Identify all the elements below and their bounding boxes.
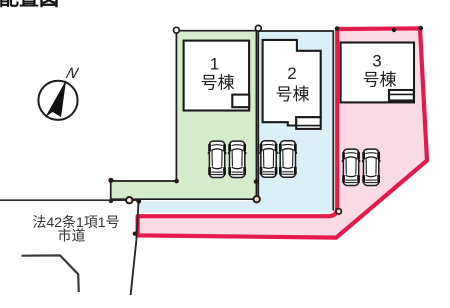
open circle marker (129.3,200.2) xyxy=(126,197,132,203)
compass circle xyxy=(38,81,77,120)
car 2 (plot 1) xyxy=(228,141,247,177)
vertex dot (110.9,200.9) xyxy=(109,199,114,204)
svg-text:号棟: 号棟 xyxy=(276,85,310,104)
building 2 xyxy=(263,40,321,126)
building 2 porch box xyxy=(296,117,321,129)
svg-text:市道: 市道 xyxy=(58,227,86,243)
building 3 porch box xyxy=(389,90,414,101)
compass needle xyxy=(45,80,66,117)
car 3 (plot 2) xyxy=(259,141,278,177)
svg-text:号棟: 号棟 xyxy=(363,71,397,90)
building 3 porch divider xyxy=(389,93,414,95)
svg-text:3: 3 xyxy=(372,52,381,71)
wire plot2 right edge xyxy=(332,30,334,210)
building 1 xyxy=(184,41,250,111)
open circle marker (176.4,30.2) xyxy=(174,27,180,33)
open circle marker (258.3,28.3) xyxy=(255,25,261,31)
plot 2 (2号棟 lot, light blue) xyxy=(140,31,334,213)
vertex dot on red top-right (420.8,28.2) xyxy=(419,26,424,31)
vertex dot (176.6,181) xyxy=(174,179,179,184)
plot 1 (1号棟 lot, light green) xyxy=(111,31,257,200)
wire plot2 left edge xyxy=(257,31,259,199)
road corner polyline (bottom-left) xyxy=(22,255,79,292)
vertex dot on red top (394,30) xyxy=(392,28,396,32)
car 6 (plot 3) xyxy=(362,149,381,185)
vertex dot (110.9,180.3) xyxy=(108,178,113,183)
plot 3 (3号棟 lot, pink with thick red boundary) xyxy=(138,28,427,237)
svg-text:N: N xyxy=(64,65,81,82)
wire plot2 top edge xyxy=(257,30,333,32)
vertex dot (136,234) xyxy=(133,232,137,236)
svg-text:号棟: 号棟 xyxy=(201,74,235,93)
svg-text:2: 2 xyxy=(287,64,296,83)
building 1 porch box xyxy=(232,95,249,108)
open circle marker (256.7,199.2) xyxy=(254,196,260,202)
car 4 (plot 2) xyxy=(279,141,298,177)
vertex dot on red top-left (337,28.6) xyxy=(335,26,340,31)
svg-text:配置図: 配置図 xyxy=(0,0,59,10)
car 1 (plot 1) xyxy=(208,141,227,177)
road edge line (diagonal, going down) xyxy=(131,200,139,295)
building 2 porch divider xyxy=(296,125,321,127)
vertex dot (138.8,201.3) xyxy=(136,199,141,204)
open circle marker (338.7,211.3) on red corner xyxy=(336,209,341,214)
building 3 xyxy=(341,43,414,103)
vertex dot (255.9,181.7) xyxy=(254,180,258,184)
road line (top, y=200) xyxy=(0,199,139,201)
svg-text:1: 1 xyxy=(210,55,219,74)
car 5 (plot 3) xyxy=(342,149,361,185)
